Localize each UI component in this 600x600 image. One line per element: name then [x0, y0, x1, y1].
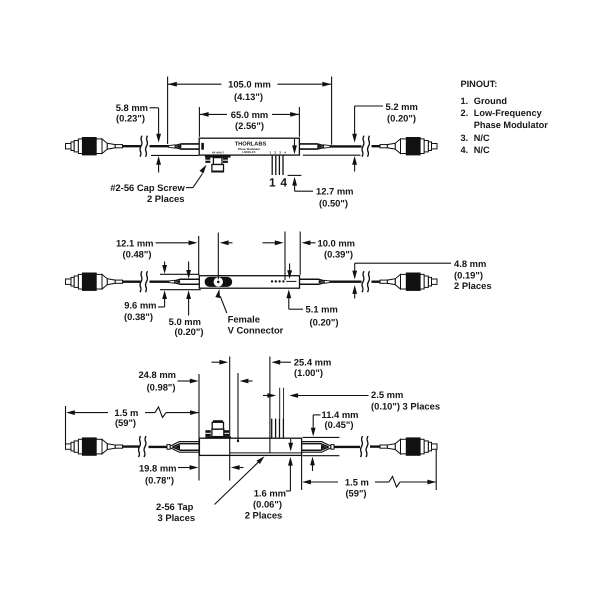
svg-text:LN65S-FC: LN65S-FC: [242, 150, 255, 154]
modulator body (middle view): [199, 276, 299, 289]
svg-text:(0.20"): (0.20"): [310, 316, 339, 327]
dimension 10.0 mm: [263, 232, 356, 281]
svg-text:10.0 mm: 10.0 mm: [318, 237, 356, 248]
svg-text:1.5 m: 1.5 m: [345, 476, 369, 487]
dimension 1.5 m right: [302, 450, 437, 499]
svg-text:2.: 2.: [461, 108, 469, 118]
svg-text:4: 4: [280, 176, 287, 190]
svg-text:(0.39"): (0.39"): [324, 249, 353, 260]
svg-text:V Connector: V Connector: [228, 325, 284, 336]
svg-text:3 Places: 3 Places: [158, 512, 196, 523]
fiber boot left (bottom view): [167, 442, 199, 453]
dimension 4.8 mm 2 Places: [352, 258, 491, 299]
svg-text:(59"): (59"): [345, 487, 366, 498]
RF connector (top view, below body): [205, 155, 231, 158]
fiber cable left (top view): [123, 145, 141, 147]
svg-text:(0.23"): (0.23"): [116, 112, 145, 123]
cable break marks left (top view): [140, 136, 148, 157]
arrow inside body for 12.7 mm: [294, 139, 296, 147]
svg-text:12.7 mm: 12.7 mm: [316, 185, 354, 196]
fiber connector right (top view): [380, 138, 437, 155]
svg-text:(0.50"): (0.50"): [319, 197, 348, 208]
svg-text:(2.56"): (2.56"): [235, 120, 264, 131]
dimension 105.0 mm: [168, 77, 332, 145]
cable break marks right (bottom view): [361, 436, 369, 457]
modulator body (top view): [199, 138, 299, 155]
MIDDLE VIEW: [66, 232, 492, 338]
fiber cable left inner (top view): [150, 145, 170, 147]
label Female V Connector: [215, 288, 283, 335]
svg-text:4.: 4.: [461, 145, 469, 155]
dimension 5.1 mm: [286, 264, 338, 328]
fiber boot right (middle view): [300, 279, 330, 284]
svg-text:5.2 mm: 5.2 mm: [386, 101, 418, 112]
PINOUT table: [461, 79, 549, 155]
fiber boot right (bottom view): [302, 442, 334, 453]
RF connector (bottom view, above body): [205, 436, 231, 438]
dimension 11.4 mm: [303, 409, 359, 471]
svg-text:9.6 mm: 9.6 mm: [124, 300, 156, 311]
dimension 24.8 mm: [138, 369, 252, 393]
BOTTOM VIEW: [66, 357, 441, 524]
fiber connector left (bottom view): [66, 438, 123, 455]
dimension 25.4 mm: [212, 357, 332, 378]
svg-text:(0.06"): (0.06"): [253, 498, 282, 509]
fiber cable left inner (middle view): [150, 281, 170, 283]
section line left through body: [229, 357, 231, 481]
V-connector edge mark inside body: [201, 143, 204, 150]
svg-text:N/C: N/C: [474, 145, 490, 155]
svg-text:(0.20"): (0.20"): [175, 326, 204, 337]
svg-text:(4.13"): (4.13"): [234, 91, 263, 102]
cable break marks left (bottom view): [139, 436, 147, 457]
dimension 2.5 mm 3 Places: [263, 389, 440, 411]
svg-text:2-56 Tap: 2-56 Tap: [156, 501, 194, 512]
svg-text:PINOUT:: PINOUT:: [461, 79, 498, 89]
female V connector (middle view): [205, 277, 233, 287]
svg-text:2 Places: 2 Places: [454, 280, 492, 291]
fiber cable right inner (top view): [330, 145, 362, 147]
modulator body (bottom view): [199, 438, 301, 455]
pin extension lines for 2.5 mm: [279, 388, 281, 419]
fiber cable right inner (middle view): [330, 281, 362, 283]
fiber boot left (middle view): [169, 279, 199, 284]
svg-text:24.8 mm: 24.8 mm: [138, 369, 176, 380]
cable break marks right (top view): [362, 136, 370, 157]
fiber cable right (bottom view): [370, 445, 381, 447]
dimension 5.0 mm: [169, 262, 204, 338]
mounting plane line right (top view): [303, 154, 361, 156]
fiber cable left (middle view): [123, 281, 141, 283]
body left edge extension line (bottom view): [198, 374, 200, 481]
svg-text:(0.20"): (0.20"): [387, 113, 416, 124]
svg-text:1 2 3 4: 1 2 3 4: [270, 150, 288, 154]
svg-text:1.: 1.: [461, 96, 469, 106]
svg-text:65.0 mm: 65.0 mm: [231, 109, 269, 120]
svg-text:1.6 mm: 1.6 mm: [254, 488, 286, 499]
svg-text:2 Places: 2 Places: [147, 193, 185, 204]
svg-text:(1.00"): (1.00"): [294, 367, 323, 378]
svg-text:(0.48"): (0.48"): [123, 249, 152, 260]
fiber cable right inner (bottom view): [334, 446, 360, 448]
dimension 5.2 mm right: [352, 101, 418, 171]
svg-text:Low-Frequency: Low-Frequency: [474, 108, 543, 118]
svg-text:2.5 mm: 2.5 mm: [371, 389, 403, 400]
pin dots (middle view): [271, 280, 273, 282]
base plate inner line (1.6 mm): [230, 452, 302, 454]
svg-text:(0.10") 3 Places: (0.10") 3 Places: [371, 400, 440, 411]
fiber connector left (top view): [66, 138, 123, 155]
fiber cable right (top view): [372, 145, 381, 147]
svg-text:5.1 mm: 5.1 mm: [306, 304, 338, 315]
svg-text:Phase Modulator: Phase Modulator: [474, 120, 548, 130]
fiber boot left (top view): [169, 144, 200, 149]
dimension 19.8 mm: [139, 462, 244, 485]
mounting plane line left (top view): [151, 154, 199, 156]
dimension 1.5 m left: [66, 406, 199, 446]
fiber connector right (bottom view): [380, 438, 437, 455]
pins below body (top view): [271, 155, 273, 175]
svg-text:Female: Female: [228, 314, 260, 325]
svg-text:RF INPUT: RF INPUT: [212, 151, 224, 154]
svg-text:(0.78"): (0.78"): [145, 474, 174, 485]
svg-text:Ground: Ground: [474, 96, 507, 106]
svg-text:105.0 mm: 105.0 mm: [228, 79, 271, 90]
fiber cable left (bottom view): [123, 445, 140, 447]
svg-text:3.: 3.: [461, 133, 469, 143]
tap hole extension line with center dot: [237, 373, 239, 441]
fiber boot right (top view): [299, 144, 330, 149]
fiber connector left (middle view): [66, 273, 123, 290]
label 2-56 Tap 3 Places: [156, 454, 266, 523]
cable break marks left (middle view): [140, 271, 148, 292]
dimension 12.7 mm: [288, 175, 354, 208]
pins above body (bottom view): [271, 419, 273, 439]
svg-text:(59"): (59"): [115, 417, 136, 428]
dimension 12.1 mm: [116, 233, 233, 280]
svg-text:19.8 mm: 19.8 mm: [139, 462, 177, 473]
section line right through body: [269, 357, 271, 453]
cable break marks right (middle view): [362, 271, 370, 292]
TOP VIEW: [66, 77, 438, 209]
dimension 1.6 mm 2 Places: [245, 439, 293, 521]
svg-text:4.8 mm: 4.8 mm: [454, 258, 486, 269]
dimension 65.0 mm: [199, 107, 299, 137]
svg-text:(0.38"): (0.38"): [124, 311, 153, 322]
svg-text:2 Places: 2 Places: [245, 510, 283, 521]
fiber connector right (middle view): [380, 273, 437, 290]
fiber cable right (middle view): [372, 281, 381, 283]
svg-text:(0.45"): (0.45"): [325, 419, 354, 430]
svg-text:12.1 mm: 12.1 mm: [116, 238, 154, 249]
svg-text:#2-56 Cap Screw: #2-56 Cap Screw: [110, 182, 185, 193]
svg-text:(0.98"): (0.98"): [147, 381, 176, 392]
svg-text:N/C: N/C: [474, 133, 490, 143]
label #2-56 Cap Screw 2 Places: [110, 163, 208, 203]
dimension 5.8 mm left: [116, 102, 161, 172]
dimension 9.6 mm: [124, 262, 201, 323]
svg-text:1: 1: [269, 176, 276, 190]
fiber cable left inner (bottom view): [149, 446, 168, 448]
